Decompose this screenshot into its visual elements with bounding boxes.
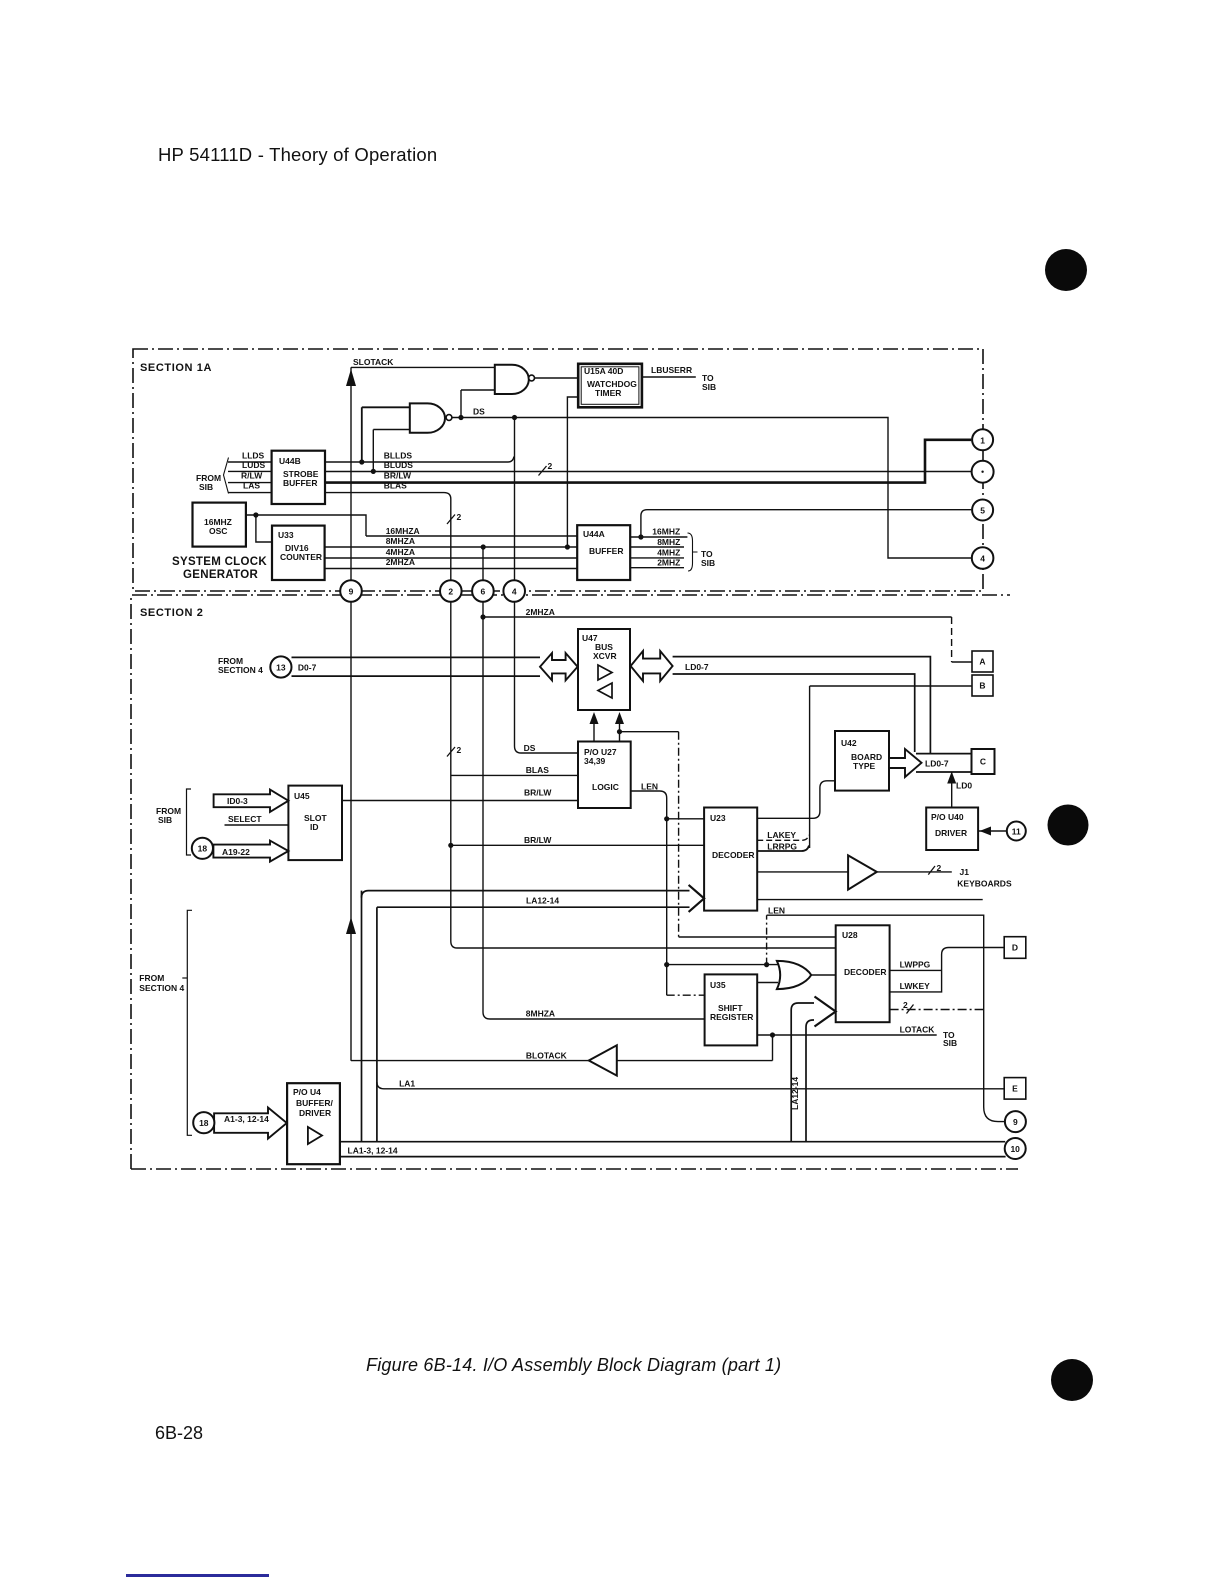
svg-text:A1-3, 12-14: A1-3, 12-14 — [224, 1114, 269, 1124]
svg-text:LLDS: LLDS — [242, 451, 265, 461]
svg-text:2: 2 — [457, 745, 462, 755]
svg-text:4MHZA: 4MHZA — [386, 547, 415, 557]
svg-text:DECODER: DECODER — [844, 967, 887, 977]
svg-text:LAS: LAS — [243, 481, 260, 491]
svg-text:BR/LW: BR/LW — [524, 788, 552, 798]
svg-text:BLOTACK: BLOTACK — [526, 1051, 568, 1061]
svg-text:BR/LW: BR/LW — [524, 835, 552, 845]
svg-text:DS: DS — [524, 743, 536, 753]
svg-text:LBUSERR: LBUSERR — [651, 365, 692, 375]
svg-text:6B-28: 6B-28 — [155, 1423, 203, 1443]
svg-text:16MHZA: 16MHZA — [386, 526, 420, 536]
svg-text:LA1-3, 12-14: LA1-3, 12-14 — [348, 1146, 398, 1156]
svg-text:LD0-7: LD0-7 — [685, 662, 709, 672]
svg-text:DS: DS — [473, 407, 485, 417]
svg-text:SIB: SIB — [943, 1038, 957, 1048]
svg-text:18: 18 — [198, 844, 208, 854]
svg-text:4MHZ: 4MHZ — [657, 548, 680, 558]
svg-text:LEN: LEN — [641, 782, 658, 792]
svg-text:P/O U4: P/O U4 — [293, 1087, 321, 1097]
svg-text:BLAS: BLAS — [384, 481, 407, 491]
svg-text:LA1: LA1 — [399, 1079, 415, 1089]
svg-text:6: 6 — [481, 586, 486, 596]
svg-text:U28: U28 — [842, 930, 858, 940]
svg-text:LA12-14: LA12-14 — [526, 896, 559, 906]
svg-text:LA12-14: LA12-14 — [790, 1077, 800, 1110]
svg-text:LWPPG: LWPPG — [900, 960, 931, 970]
svg-text:8MHZA: 8MHZA — [386, 536, 415, 546]
svg-text:SIB: SIB — [158, 815, 172, 825]
svg-text:LEN: LEN — [768, 906, 785, 916]
svg-text:8MHZA: 8MHZA — [526, 1009, 555, 1019]
svg-text:LOTACK: LOTACK — [900, 1025, 936, 1035]
svg-text:8MHZ: 8MHZ — [657, 537, 680, 547]
svg-text:LWKEY: LWKEY — [900, 981, 931, 991]
svg-text:COUNTER: COUNTER — [280, 552, 322, 562]
svg-text:10: 10 — [1010, 1144, 1020, 1154]
svg-text:BUFFER: BUFFER — [589, 546, 623, 556]
svg-text:LD0-7: LD0-7 — [925, 759, 949, 769]
svg-text:11: 11 — [1012, 826, 1021, 836]
svg-text:SELECT: SELECT — [228, 814, 262, 824]
svg-text:C: C — [980, 757, 986, 767]
svg-text:4: 4 — [512, 586, 517, 596]
svg-text:U23: U23 — [710, 813, 726, 823]
svg-text:34,39: 34,39 — [584, 756, 606, 766]
svg-text:LD0: LD0 — [956, 781, 972, 791]
svg-text:DRIVER: DRIVER — [935, 828, 967, 838]
svg-text:KEYBOARDS: KEYBOARDS — [957, 879, 1012, 889]
svg-text:SLOTACK: SLOTACK — [353, 357, 394, 367]
svg-text:SECTION 4: SECTION 4 — [218, 665, 263, 675]
svg-text:SIB: SIB — [701, 558, 715, 568]
svg-text:13: 13 — [276, 662, 286, 672]
svg-text:E: E — [1012, 1084, 1018, 1094]
svg-text:BUFFER: BUFFER — [283, 478, 317, 488]
svg-text:16MHZ: 16MHZ — [652, 527, 680, 537]
svg-text:DECODER: DECODER — [712, 850, 755, 860]
svg-text:J1: J1 — [960, 867, 970, 877]
svg-text:U35: U35 — [710, 980, 726, 990]
svg-text:2MHZA: 2MHZA — [526, 607, 555, 617]
svg-text:LRRPG: LRRPG — [767, 842, 797, 852]
svg-text:FROM: FROM — [139, 973, 164, 983]
svg-text:D0-7: D0-7 — [298, 663, 317, 673]
svg-text:SECTION 2: SECTION 2 — [140, 607, 203, 619]
svg-text:A19-22: A19-22 — [222, 847, 250, 857]
svg-text:LUDS: LUDS — [242, 460, 265, 470]
svg-text:U15A 40D: U15A 40D — [584, 366, 623, 376]
svg-text:18: 18 — [199, 1118, 209, 1128]
svg-text:HP 54111D - Theory of Operatio: HP 54111D - Theory of Operation — [158, 144, 437, 165]
svg-text:SYSTEM CLOCK: SYSTEM CLOCK — [172, 556, 267, 568]
svg-text:2MHZ: 2MHZ — [657, 558, 680, 568]
svg-text:U33: U33 — [278, 530, 294, 540]
svg-text:XCVR: XCVR — [593, 651, 617, 661]
svg-text:B: B — [979, 681, 985, 691]
svg-text:U44B: U44B — [279, 456, 301, 466]
svg-text:U45: U45 — [294, 791, 310, 801]
svg-text:ID0-3: ID0-3 — [227, 796, 248, 806]
svg-text:2: 2 — [903, 1000, 908, 1010]
svg-text:GENERATOR: GENERATOR — [183, 569, 259, 581]
svg-text:LOGIC: LOGIC — [592, 782, 619, 792]
svg-text:9: 9 — [349, 586, 354, 596]
svg-text:2: 2 — [448, 586, 453, 596]
svg-text:BLAS: BLAS — [526, 765, 549, 775]
svg-text:BR/LW: BR/LW — [384, 471, 412, 481]
svg-text:TYPE: TYPE — [853, 761, 876, 771]
svg-text:TIMER: TIMER — [595, 388, 621, 398]
svg-text:9: 9 — [1013, 1117, 1018, 1127]
svg-text:SIB: SIB — [702, 382, 716, 392]
svg-text:LAKEY: LAKEY — [767, 830, 796, 840]
svg-text:OSC: OSC — [209, 526, 227, 536]
svg-text:D: D — [1012, 943, 1018, 953]
svg-text:SIB: SIB — [199, 482, 213, 492]
svg-text:SECTION 4: SECTION 4 — [139, 983, 184, 993]
svg-text:2: 2 — [457, 512, 462, 522]
svg-text:A: A — [979, 657, 985, 667]
svg-text:ID: ID — [310, 822, 319, 832]
svg-text:2MHZA: 2MHZA — [386, 557, 415, 567]
svg-text:2: 2 — [548, 461, 553, 471]
svg-text:SECTION 1A: SECTION 1A — [140, 362, 212, 374]
svg-text:5: 5 — [980, 505, 985, 515]
svg-text:DRIVER: DRIVER — [299, 1108, 331, 1118]
svg-text:4: 4 — [980, 553, 985, 563]
svg-text:1: 1 — [980, 435, 985, 445]
svg-text:BLUDS: BLUDS — [384, 460, 414, 470]
svg-text:Figure 6B-14. I/O Assembly Bl: Figure 6B-14. I/O Assembly Block Diagram… — [366, 1355, 781, 1375]
svg-text:BUFFER/: BUFFER/ — [296, 1098, 333, 1108]
svg-text:P/O U40: P/O U40 — [931, 812, 964, 822]
svg-text:BLLDS: BLLDS — [384, 451, 413, 461]
svg-text:U42: U42 — [841, 738, 857, 748]
svg-text:U44A: U44A — [583, 529, 605, 539]
svg-text:REGISTER: REGISTER — [710, 1012, 753, 1022]
svg-text:R/LW: R/LW — [241, 471, 263, 481]
